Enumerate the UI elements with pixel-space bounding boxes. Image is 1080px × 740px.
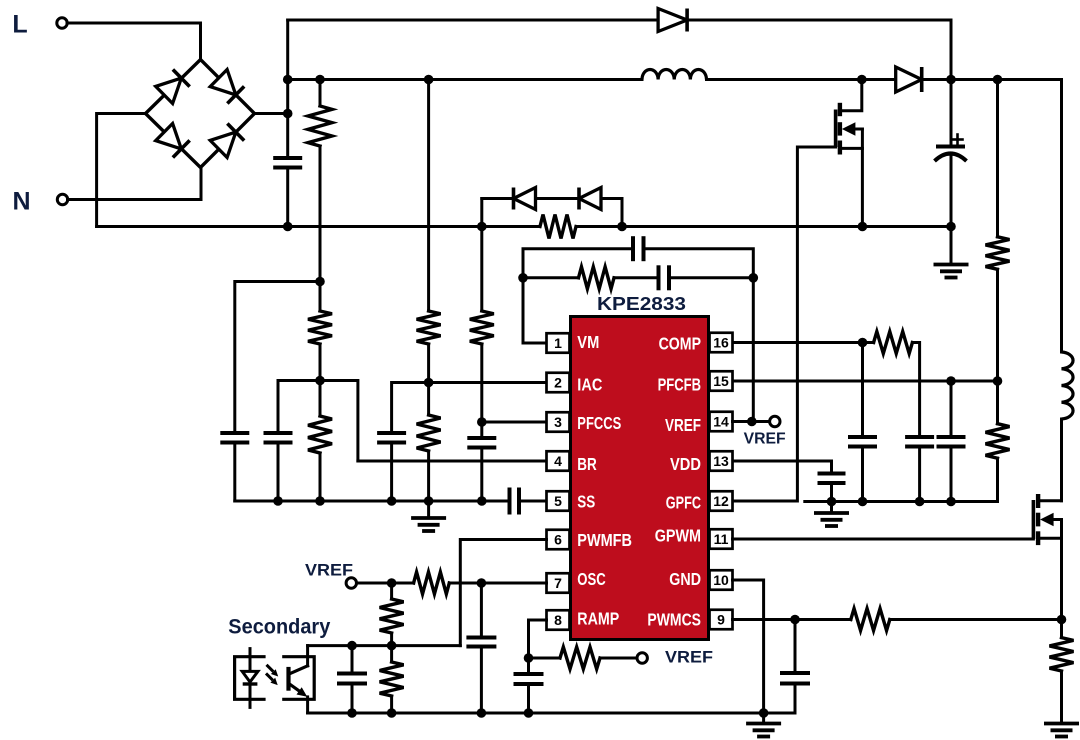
- node VREF terminal (OSC divider): [346, 578, 356, 588]
- pin 8 box: [547, 610, 570, 630]
- ground symbol (bulk cap): [934, 227, 969, 278]
- wire pin15 PFCFB line: [733, 380, 998, 383]
- wire PFCFB cap branch: [950, 381, 953, 437]
- wire R13 to PWMFB line: [390, 633, 393, 646]
- resistor R17 (RAMP): [560, 647, 600, 669]
- capacitor C9 (COMP): [848, 437, 877, 447]
- resistor R10 (output divider upper): [986, 237, 1010, 269]
- wire ground bus (right part): [576, 225, 951, 228]
- ground symbol (analog bus): [411, 501, 446, 531]
- wire Q1 drain: [840, 80, 862, 111]
- diode D7 (restart, points left): [579, 188, 601, 210]
- wire C16 to ground bus: [794, 684, 797, 714]
- node VREF terminal (RAMP): [637, 653, 647, 663]
- resistor R9 (COMP): [874, 332, 913, 354]
- wire divider lower lead: [390, 646, 393, 662]
- pin 2 box: [547, 373, 570, 393]
- wire R5 to analog ground bus: [319, 453, 322, 501]
- capacitor C17 (bulk electrolytic) plus mark: [953, 135, 963, 145]
- wire pin8 RAMP: [529, 620, 547, 658]
- svg-text:1: 1: [554, 335, 562, 351]
- wire C3 to analog ground bus: [277, 443, 280, 502]
- wire C17 to ground bus: [950, 154, 953, 227]
- pin 13 box: [710, 451, 733, 471]
- wire R4 to BR node: [319, 344, 322, 416]
- wire comp mid branch left: [523, 276, 579, 279]
- wire opto emitter to ground bus: [306, 697, 309, 713]
- wire diode pair line (left): [482, 197, 514, 200]
- transistor Q2 body arrow: [1040, 513, 1061, 527]
- transistor Q1 body arrow: [842, 122, 863, 136]
- svg-text:GPFC: GPFC: [666, 493, 701, 513]
- capacitor C12 (VDD decoupling): [818, 474, 846, 484]
- wire R15 to Q2 source: [890, 618, 1062, 621]
- wire VREF to R12: [357, 582, 414, 585]
- capacitor C10 (COMP): [905, 437, 934, 447]
- wire pin4 BR line: [358, 460, 547, 463]
- wire between D6 and D7: [536, 197, 580, 200]
- resistor R15 (PWMCS): [851, 609, 890, 631]
- capacitor C16 (PWMCS filter): [780, 673, 810, 684]
- wire Q2 body tie: [1060, 520, 1063, 539]
- wire boost output to C17: [950, 80, 953, 146]
- pin 12 box: [710, 491, 733, 511]
- ground symbol (current sense): [1044, 671, 1079, 737]
- svg-text:VM: VM: [577, 332, 599, 352]
- wire PFCFB to R11: [996, 381, 999, 424]
- optocoupler U2 light arrows: [266, 665, 278, 685]
- pin 10 box: [710, 570, 733, 590]
- capacitor C17 (bulk electrolytic): [935, 147, 967, 162]
- svg-text:PWMCS: PWMCS: [647, 609, 701, 629]
- inductor L2 (second stage choke): [1062, 352, 1074, 419]
- bridge diode D2 (top-right arm): [210, 70, 244, 104]
- wire opto collector: [306, 646, 309, 666]
- transistor Q2 channel segments: [1036, 494, 1040, 545]
- capacitor C4 (IAC filter): [377, 433, 406, 443]
- wire rectified DC riser upper: [286, 20, 289, 158]
- wire output divider top lead: [996, 80, 999, 237]
- capacitor C7 (comp, series): [633, 236, 644, 261]
- wire feedback cap lead: [480, 583, 483, 638]
- pin 15 box: [710, 371, 733, 391]
- svg-text:OSC: OSC: [577, 569, 606, 589]
- resistor R13 (divider upper): [380, 599, 404, 633]
- pin 7 box: [547, 573, 570, 593]
- wire PFCCS chain upper: [480, 199, 483, 312]
- wire R14 to secondary ground bus: [390, 696, 393, 713]
- pin 5 box: [547, 491, 570, 511]
- wire BR node cap lead: [277, 381, 280, 434]
- resistor R7 (series in ground bus): [540, 215, 576, 239]
- wire pin3 PFCCS line: [482, 421, 547, 424]
- svg-text:VDD: VDD: [670, 454, 701, 474]
- svg-text:11: 11: [714, 531, 729, 547]
- wire Q2 drain: [1038, 499, 1061, 502]
- wire R8 to C8: [614, 276, 659, 279]
- resistor R14 (divider lower): [380, 662, 404, 696]
- wire pin2 IAC line: [392, 383, 547, 434]
- pin 3 box: [547, 412, 570, 432]
- svg-text:14: 14: [713, 414, 729, 430]
- wire Q1 source: [840, 148, 863, 226]
- wire boost output bus: [922, 80, 1062, 353]
- capacitor C6 (soft-start, series): [510, 488, 520, 515]
- wire VM node branch: [235, 282, 320, 434]
- optocoupler U2 phototransistor: [289, 666, 308, 697]
- wire L2 to Q2 drain: [1060, 419, 1063, 501]
- wire C15 to secondary ground bus: [527, 684, 530, 713]
- svg-text:16: 16: [713, 335, 729, 351]
- optocoupler U2 LED bottom lead: [249, 684, 252, 707]
- wire analog ground bus: [235, 500, 510, 503]
- capacitor C14 (feedback): [466, 638, 496, 647]
- resistor R11 (output divider lower): [986, 424, 1010, 459]
- wire R10 to PFCFB: [996, 269, 999, 381]
- capacitor C11 (PFCFB): [937, 437, 966, 447]
- capacitor C15 (RAMP): [514, 674, 544, 684]
- optocoupler U2 LED diode: [242, 671, 258, 684]
- resistor R6 (IAC lower): [417, 415, 441, 451]
- resistor R5 (VM lower): [308, 416, 332, 453]
- wire C8 to PFCFB riser: [669, 276, 753, 279]
- svg-text:PWMFB: PWMFB: [577, 530, 632, 550]
- pin 11 box: [710, 529, 733, 549]
- wire C12 to ground: [830, 483, 833, 502]
- svg-text:IAC: IAC: [577, 374, 602, 394]
- node L input terminal: [57, 18, 67, 28]
- wire pin9 PWMCS line left: [733, 618, 851, 621]
- pin 1 box: [547, 333, 570, 353]
- wire OSC divider upper lead: [390, 583, 393, 599]
- capacitor C2 (VM filter): [220, 433, 249, 443]
- svg-text:4: 4: [554, 453, 562, 469]
- capacitor C8 (comp, series): [659, 265, 670, 290]
- wire ground bus (left part): [97, 225, 540, 228]
- svg-text:10: 10: [713, 572, 729, 588]
- svg-text:Secondary: Secondary: [228, 616, 330, 639]
- IC U1 KPE2833 body: [571, 317, 709, 640]
- wire VM chain top lead: [319, 80, 322, 107]
- bridge diode D4 (bottom-right arm): [210, 124, 244, 158]
- wire R11 to local ground bus: [805, 458, 998, 501]
- wire top bypass line (right of D5): [688, 20, 952, 80]
- wire pin6 PWMFB: [460, 540, 546, 646]
- optocoupler U2 LED bracket: [235, 657, 264, 700]
- bridge diode D3 (left-bottom arm): [156, 124, 190, 158]
- pin 16 box: [710, 333, 733, 353]
- wire bridge plus output: [255, 112, 288, 115]
- diode D6 (restart, points left): [514, 188, 536, 210]
- wire BR node line: [278, 381, 358, 462]
- svg-text:15: 15: [713, 373, 729, 389]
- wire R17 to VREF terminal: [600, 657, 637, 660]
- bridge diode D1 (left-top arm): [156, 70, 190, 104]
- wire current sense resistor top: [1060, 620, 1063, 638]
- optocoupler U2 transistor bracket: [284, 657, 314, 700]
- wire PWMCS cap lead: [794, 620, 797, 674]
- wire C6 to pin5 SS: [519, 500, 547, 503]
- ground symbol (VDD cap): [814, 502, 849, 527]
- svg-text:SS: SS: [577, 491, 595, 511]
- svg-text:12: 12: [713, 493, 729, 509]
- resistor R4 (VM middle): [308, 311, 332, 344]
- svg-text:8: 8: [554, 612, 562, 628]
- wire COMP cap branch: [861, 343, 864, 438]
- wire L to bridge top: [67, 23, 201, 60]
- svg-text:2: 2: [554, 375, 562, 391]
- svg-text:N: N: [12, 188, 30, 216]
- wire bridge minus output to ground bus: [97, 114, 146, 227]
- transistor Q2 gate bar: [1032, 500, 1036, 539]
- wire rectified DC riser lower: [286, 168, 289, 227]
- wire pin11 GPWM to Q2 gate: [733, 538, 1034, 541]
- resistor R3 (PFCCS sense): [470, 311, 494, 344]
- wire pin14 to VREF terminal: [733, 420, 770, 423]
- wire R2 to IAC node: [427, 344, 430, 415]
- wire main boost bus (left of L1): [288, 78, 642, 81]
- capacitor C1 (input filter): [273, 158, 302, 168]
- wire C10 to local ground bus: [918, 447, 921, 502]
- wire PWMFB node line: [308, 644, 461, 647]
- svg-text:VREF: VREF: [665, 648, 713, 667]
- wire secondary ground bus: [308, 712, 795, 715]
- optocoupler U2 LED top lead: [249, 649, 252, 672]
- inductor L1 (boost choke): [642, 70, 706, 80]
- wire IAC chain top lead: [427, 80, 430, 312]
- wire pin10 GND: [733, 580, 764, 713]
- wire C14 to secondary ground bus: [480, 647, 483, 714]
- capacitor C13 (opto filter): [337, 674, 367, 684]
- wire pin13 VDD line: [733, 461, 832, 474]
- wire Q2 source: [1038, 538, 1061, 619]
- pin 6 box: [547, 530, 570, 550]
- svg-text:L: L: [12, 11, 27, 39]
- wire N to bridge bottom: [68, 168, 202, 200]
- node VREF output terminal: [770, 416, 780, 426]
- pin 14 box: [710, 412, 733, 432]
- wire RAMP cap lead: [527, 658, 530, 674]
- wire R9 corner to C10: [912, 343, 919, 438]
- svg-text:BR: BR: [577, 454, 597, 474]
- svg-text:5: 5: [554, 493, 562, 509]
- svg-text:7: 7: [554, 575, 562, 591]
- wire RAMP node to R17: [529, 657, 561, 660]
- resistor R1 (VM upper): [308, 106, 332, 146]
- resistor R2 (IAC upper): [417, 311, 441, 344]
- ground symbol (pin10): [746, 713, 781, 737]
- wire opto filter cap lead: [351, 646, 354, 674]
- capacitor C5 (PFCCS filter): [467, 438, 496, 448]
- capacitor C3 (BR filter): [264, 433, 293, 443]
- svg-text:PFCCS: PFCCS: [577, 413, 621, 433]
- wire C11 to local ground bus: [950, 447, 953, 502]
- wire C9 to local ground bus: [861, 447, 864, 502]
- wire C13 to secondary ground bus: [351, 684, 354, 714]
- svg-text:PFCFB: PFCFB: [658, 374, 701, 394]
- resistor R16 (current sense): [1050, 638, 1074, 671]
- svg-text:6: 6: [554, 532, 562, 548]
- wire diode pair line (right): [601, 199, 622, 227]
- wire top bypass line (left of D5): [288, 19, 658, 22]
- wire C7 to PFCFB riser: [644, 249, 754, 422]
- node N input terminal: [57, 194, 67, 204]
- svg-text:VREF: VREF: [744, 431, 786, 448]
- wire R3 to PFCCS node: [480, 344, 483, 438]
- wire Q1 body tie: [861, 129, 864, 148]
- svg-text:KPE2833: KPE2833: [597, 293, 686, 314]
- diode D5 (line bypass): [658, 9, 687, 32]
- svg-text:RAMP: RAMP: [577, 609, 619, 629]
- svg-text:VREF: VREF: [305, 561, 353, 580]
- transistor Q1 channel segments: [838, 103, 842, 155]
- diode D8 (boost diode): [896, 67, 922, 92]
- resistor R8 (comp): [579, 267, 615, 289]
- svg-text:VREF: VREF: [665, 415, 701, 435]
- pin 4 box: [547, 451, 570, 471]
- wire main boost bus (L1 to Q1 drain node): [707, 78, 897, 81]
- svg-text:13: 13: [713, 453, 729, 469]
- svg-text:3: 3: [554, 414, 562, 430]
- svg-text:9: 9: [717, 612, 725, 628]
- svg-text:COMP: COMP: [659, 333, 702, 353]
- wire R12 to pin7 OSC: [449, 582, 546, 585]
- wire C5 to analog ground bus: [480, 448, 483, 502]
- svg-text:GND: GND: [669, 569, 701, 589]
- wire R1 to VM node: [319, 146, 322, 311]
- wire pin1 VM riser: [523, 249, 633, 343]
- bridge rectifier BR1 frame: [146, 60, 255, 168]
- wire pin12 GPFC to Q1 gate: [733, 147, 836, 501]
- resistor R12 (OSC): [414, 572, 450, 594]
- wire R6 to analog ground bus: [427, 451, 430, 501]
- wire C4 to analog ground bus: [390, 443, 393, 502]
- svg-text:GPWM: GPWM: [655, 525, 701, 545]
- pin 9 box: [710, 610, 733, 630]
- wire C2 to analog ground bus: [233, 443, 236, 502]
- wire pin16 COMP line: [733, 341, 874, 344]
- transistor Q1 gate bar: [834, 110, 838, 148]
